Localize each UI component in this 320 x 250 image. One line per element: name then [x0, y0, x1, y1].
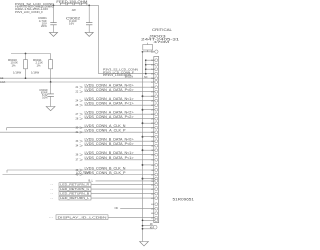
svg-text:LVDS_CONN_A_CLK_N: LVDS_CONN_A_CLK_N	[85, 124, 126, 128]
wire DISPLAY_ID (row n35)	[49, 215, 155, 220]
wire	[89, 4, 99, 6]
wire stub	[143, 149, 155, 151]
svg-text:28: 28	[76, 118, 79, 121]
svg-text:LVDS_CONN_B_CLK_N: LVDS_CONN_B_CLK_N	[85, 166, 126, 170]
svg-text:B_L: B_L	[89, 179, 94, 183]
svg-text:21: 21	[76, 86, 79, 89]
svg-text:1%: 1%	[12, 63, 17, 67]
wire stub	[146, 68, 155, 70]
node junction R9010 bottom	[25, 77, 27, 79]
node ground bus junction	[142, 178, 144, 180]
svg-text:JW: JW	[72, 8, 76, 12]
wire LVDS_CONN_B_CLK_P	[3, 171, 155, 177]
svg-text:51R09651: 51R09651	[173, 198, 195, 202]
wire NC (row n33)	[115, 207, 155, 210]
ground	[46, 107, 55, 111]
svg-text:22: 22	[76, 91, 79, 94]
wire stub	[143, 136, 155, 138]
svg-text:20%: 20%	[41, 24, 47, 28]
svg-text:- -: - -	[51, 188, 54, 191]
node ground bus junction	[142, 95, 144, 97]
node P3V3 bus junction	[145, 64, 147, 66]
node B junction	[88, 5, 90, 7]
svg-text:34: 34	[76, 145, 79, 148]
wire stub	[143, 164, 155, 166]
svg-text:1/16W: 1/16W	[31, 71, 39, 75]
wire LVDS_CONN_B_DATA_P0	[76, 142, 155, 148]
svg-text:470M: 470M	[154, 40, 171, 44]
svg-text:NC: NC	[144, 76, 148, 79]
wire stub	[143, 178, 155, 180]
wire LVDS_CONN_B_DATA_N0	[76, 138, 155, 144]
svg-text:36: 36	[76, 154, 79, 157]
component box 470	[143, 43, 153, 52]
svg-text:PP3V3_LCDCONN: PP3V3_LCDCONN	[103, 73, 131, 77]
wire stub	[143, 95, 155, 97]
svg-text:LVDS_CONN_A_CLK_P: LVDS_CONN_A_CLK_P	[85, 129, 127, 133]
node ground bus junction	[142, 136, 144, 138]
node junction R9010 top	[25, 53, 27, 55]
ground bus	[142, 52, 144, 242]
svg-text:P3V3_LCD_CONN_F: P3V3_LCD_CONN_F	[15, 10, 43, 14]
capacitor C9002	[66, 5, 92, 32]
svg-text:LED_RETURN_L: LED_RETURN_L	[60, 196, 89, 200]
wire LCD_ADJ (row n5)	[0, 81, 155, 83]
svg-text:LED_RETURN_B: LED_RETURN_B	[60, 192, 89, 196]
net label P3V3_S2_LCD_CONN block	[15, 2, 54, 14]
ground	[140, 242, 149, 246]
connector J9003 body	[154, 57, 159, 223]
svg-text:LED_RETURN_G: LED_RETURN_G	[60, 187, 90, 191]
svg-text:LCA: LCA	[0, 80, 5, 84]
capacitor C9001	[38, 5, 57, 32]
wire stub	[146, 59, 155, 61]
svg-text:16V: 16V	[69, 22, 74, 26]
connector shield pin	[142, 223, 157, 229]
node P3V3 bus junction	[145, 68, 147, 70]
wire LED_RETURN_G	[51, 187, 155, 191]
wire LVDS_CONN_A_DATA_P0	[76, 88, 155, 94]
svg-text:LVDS_CONN_B_DATA_P<0>: LVDS_CONN_B_DATA_P<0>	[85, 142, 134, 146]
svg-text:LVDS_CONN_B_CLK_P: LVDS_CONN_B_CLK_P	[85, 171, 127, 175]
wire stub	[143, 122, 155, 124]
node ground bus junction	[142, 219, 144, 221]
svg-text:CRITICAL: CRITICAL	[152, 28, 172, 32]
svg-text:LVDS_CONN_A_DATA_P<2>: LVDS_CONN_A_DATA_P<2>	[85, 115, 134, 119]
wire LVDS_CONN_A_DATA_N2	[76, 111, 155, 117]
svg-text:33: 33	[76, 140, 79, 143]
ground	[49, 32, 57, 36]
capacitor C9010	[39, 82, 54, 107]
svg-text:25: 25	[76, 104, 79, 107]
wire LCD_BKL_EN (row n4)	[0, 77, 155, 79]
svg-text:37: 37	[76, 159, 79, 162]
svg-text:10%: 10%	[42, 95, 48, 99]
wire LED_RETURN_B	[51, 192, 155, 196]
svg-text:DISPLAY_ID_LCDBN: DISPLAY_ID_LCDBN	[58, 215, 107, 219]
svg-text:1/16W: 1/16W	[13, 71, 21, 75]
svg-text:LVDS_CONN_A_DATA_N<0>: LVDS_CONN_A_DATA_N<0>	[85, 84, 134, 88]
node ground bus junction	[142, 109, 144, 111]
wire LED_RETURN_R	[51, 183, 155, 187]
node ground bus junction	[142, 164, 144, 166]
wire LCD_SNS (row n27)	[89, 179, 155, 183]
node P3V3 bus junction	[145, 73, 147, 75]
wire LVDS_CONN_B_DATA_N1	[76, 151, 155, 157]
wire stub	[146, 64, 155, 66]
wire LVDS_CONN_A_DATA_N0	[76, 84, 155, 90]
node junction bus top	[142, 51, 144, 53]
ground	[85, 32, 93, 36]
svg-text:27: 27	[76, 113, 79, 116]
svg-text:- -: - -	[51, 197, 54, 200]
wire stub last ground pin	[143, 219, 155, 221]
svg-text:LVDS_CONN_A_DATA_P<1>: LVDS_CONN_A_DATA_P<1>	[85, 102, 134, 106]
svg-text:30: 30	[76, 127, 79, 130]
ferrite bead FB9001	[55, 3, 89, 12]
node ground bus junction	[142, 149, 144, 151]
svg-text:LVDS_CONN_A_DATA_N<1>: LVDS_CONN_A_DATA_N<1>	[85, 97, 134, 101]
svg-text:NC: NC	[115, 207, 119, 210]
svg-text:LE: LE	[0, 76, 3, 80]
svg-text:LVDS_CONN_A_DATA_N<2>: LVDS_CONN_A_DATA_N<2>	[85, 111, 134, 115]
wire LVDS_CONN_A_CLK_P	[0, 129, 155, 135]
svg-text:FEED-150-OHM: FEED-150-OHM	[56, 0, 87, 4]
wire net name underline	[20, 4, 55, 6]
svg-text:24: 24	[76, 100, 79, 103]
wire pin 11	[143, 51, 155, 53]
resistor R9010	[8, 54, 27, 79]
pin numbers	[151, 60, 154, 220]
connector pin circles	[155, 59, 158, 219]
svg-text:LVDS_CONN_A_DATA_P<0>: LVDS_CONN_A_DATA_P<0>	[85, 88, 134, 92]
wire LVDS_CONN_B_DATA_P1	[76, 156, 155, 162]
svg-text:LED_RETURN_R: LED_RETURN_R	[60, 183, 90, 187]
node P3V3 bus junction	[145, 59, 147, 61]
node A junction	[53, 5, 55, 7]
wire pull-up rail	[11, 53, 51, 55]
svg-text:1%: 1%	[37, 63, 42, 67]
wire LVDS_CONN_A_DATA_P2	[76, 115, 155, 121]
power bus P3V3	[145, 60, 147, 73]
connector pin circle extra	[155, 219, 158, 222]
svg-text:LCD_TEMP: LCD_TEMP	[76, 171, 91, 175]
connector key pin circle	[155, 50, 158, 53]
wire LVDS_CONN_A_CLK_N	[7, 124, 155, 130]
wire LVDS_CONN_A_DATA_P1	[76, 102, 155, 108]
svg-text:- - -: - - -	[49, 217, 53, 220]
svg-text:LVDS_CONN_B_DATA_N<0>: LVDS_CONN_B_DATA_N<0>	[85, 138, 134, 142]
net label P3V3 feed block	[103, 68, 138, 77]
svg-text:- -: - -	[51, 192, 54, 195]
svg-text:LVDS_CONN_B_DATA_N<1>: LVDS_CONN_B_DATA_N<1>	[85, 151, 134, 155]
wire P3V3 vertical	[98, 5, 100, 73]
wire P3V3 feed (row n3)	[99, 73, 155, 75]
wire stub	[143, 109, 155, 111]
wire LVDS_CONN_A_DATA_N1	[76, 97, 155, 103]
wire LED_RETURN_L	[51, 196, 155, 200]
resistor R9011	[31, 54, 53, 83]
svg-text:LVDS_CONN_B_DATA_P<1>: LVDS_CONN_B_DATA_P<1>	[85, 156, 134, 160]
node junction R9011/C9010	[50, 81, 52, 83]
node ground bus junction	[142, 122, 144, 124]
svg-text:- -: - -	[51, 183, 54, 186]
wire LVDS_CONN_B_CLK_N	[7, 166, 155, 172]
